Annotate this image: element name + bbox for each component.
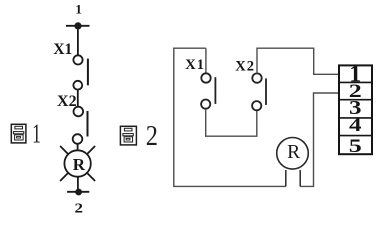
wire (fig 2 outer loop: top left + left side + bottom) — [174, 48, 286, 186]
svg-text:5: 5 — [349, 136, 362, 157]
svg-text:X1: X1 — [185, 57, 205, 73]
wire — [77, 177, 79, 192]
svg-text:X1: X1 — [53, 41, 72, 58]
svg-text:2: 2 — [146, 119, 158, 151]
switch X2 (fig 2) — [252, 73, 266, 110]
terminal 2 — [67, 189, 89, 196]
wire (X1 bottom contact to X2 bottom contact) — [206, 109, 257, 137]
terminal block outline — [339, 65, 372, 154]
lamp R (fig 1) — [60, 146, 95, 181]
switch X2 (fig 1) — [73, 107, 88, 144]
wire (X2 top contact to block terminal 1) — [257, 48, 338, 74]
svg-text:X2: X2 — [235, 58, 255, 74]
svg-text:X2: X2 — [57, 93, 77, 110]
wire — [77, 144, 79, 151]
wire (down to X1 top contact) — [205, 48, 207, 73]
caption glyph 圖 (fig 2) — [120, 126, 136, 145]
lamp R (fig 2) — [277, 138, 309, 187]
switch X1 (fig 2) — [201, 73, 215, 108]
wire — [77, 90, 79, 107]
svg-text:R: R — [287, 142, 300, 163]
svg-text:2: 2 — [75, 200, 84, 215]
wire — [77, 26, 79, 56]
terminal 1 — [66, 22, 90, 29]
wire (block terminal 2 down to lamp) — [300, 93, 338, 186]
svg-text:1: 1 — [32, 119, 41, 149]
svg-text:1: 1 — [75, 2, 82, 17]
switch X1 (fig 1) — [73, 55, 88, 89]
caption glyph 圖 (fig 1) — [11, 124, 26, 143]
svg-text:R: R — [73, 155, 86, 174]
terminal block row lines — [339, 82, 372, 135]
svg-text:4: 4 — [349, 115, 362, 136]
